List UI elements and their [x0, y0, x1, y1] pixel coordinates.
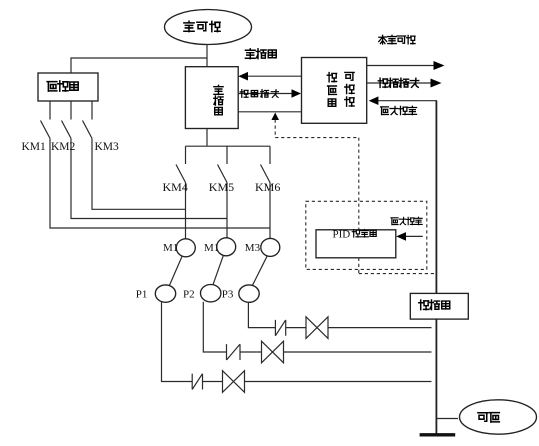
wire: main power down to inverter [206, 45, 208, 67]
wire+arrow 故障信号 output [367, 82, 431, 84]
dashed wire: feedback up segment [274, 120, 276, 138]
wire M3-P3 [253, 256, 268, 285]
pump P2 [201, 285, 221, 302]
motor M3 [261, 238, 280, 256]
arrowhead right into PLC [292, 89, 302, 98]
wire: PLC to inverter with arrow [246, 75, 302, 77]
wire [203, 381, 223, 383]
motor M2 (labelled M1 in source) [217, 238, 236, 256]
svg-text:KM2: KM2 [51, 141, 76, 153]
wire: P1 down and right [162, 302, 193, 382]
label 调节器 [352, 229, 376, 237]
svg-text:M1: M1 [204, 242, 219, 254]
wire M2-P2 [213, 256, 223, 285]
svg-text:KM6: KM6 [255, 180, 280, 194]
wire to manifold [328, 327, 432, 329]
label 故障信号 [378, 78, 418, 87]
label 水泵电机 [379, 35, 415, 44]
svg-text:PID: PID [333, 228, 351, 240]
wire [240, 351, 262, 353]
wire: P3 down and right [248, 302, 275, 327]
label 压力设定 (PID input) [391, 217, 422, 224]
flex joint row3 [192, 374, 202, 390]
wire [286, 327, 306, 329]
contactor KM3 [83, 121, 93, 139]
wire: P2 down and right [203, 302, 226, 352]
contactor KM6 [269, 146, 271, 164]
svg-text:P3: P3 [222, 289, 234, 301]
PLC box 可编程控制器 [302, 58, 367, 124]
svg-text:KM4: KM4 [163, 180, 188, 194]
contactor KM1 [41, 121, 51, 139]
label 变频器 (vertical, in box) [214, 85, 223, 115]
ellipse user 用户 [460, 400, 537, 434]
wire 压力设定 into PID with arrow [405, 235, 423, 237]
starter box 启动器 [38, 73, 98, 101]
arrowhead left into inverter [238, 72, 248, 81]
pump P3 [239, 285, 259, 302]
pipe vertical [435, 101, 437, 434]
label 主电源 [184, 21, 220, 31]
valve row2 [262, 341, 284, 363]
contactor KM5 [226, 146, 228, 164]
wire: KM bus [186, 145, 271, 147]
svg-text:P2: P2 [183, 289, 195, 301]
wire 压力设定 input with left arrow [378, 101, 437, 294]
svg-text:M3: M3 [245, 242, 261, 254]
contactor KM2 [62, 121, 72, 139]
wire to manifold [245, 381, 432, 383]
label 用户 [478, 413, 499, 422]
svg-text:KM1: KM1 [22, 141, 47, 153]
wire+arrow 水泵电机 output [367, 65, 434, 67]
svg-text:KM3: KM3 [95, 141, 120, 153]
label 可编程控制器 [327, 72, 354, 106]
dashed wire: sensor line to PID [359, 273, 434, 275]
ellipse main power 主电源 [165, 10, 252, 45]
arrowhead up onto link (from PID dashed feedback) [271, 113, 279, 121]
label 变频器 (top) [245, 49, 276, 59]
wire to user [437, 418, 458, 420]
inverter box 变频器 [185, 67, 238, 129]
PID regulator box [316, 230, 396, 258]
valve row3 [223, 371, 245, 393]
dashed wire: feedback horizontal [275, 137, 359, 139]
pump P1 [155, 285, 175, 302]
wire M1-P1 [170, 257, 183, 286]
flex joint row1 [275, 320, 285, 336]
flex joint row2 [227, 344, 241, 360]
dashed wire: down to PID box top [358, 138, 360, 230]
dashed wire: PID bottom down [358, 258, 360, 274]
dashed enclosure [306, 201, 427, 269]
pipe end bar [420, 433, 456, 436]
wire: third link inverter-PLC [238, 111, 301, 113]
svg-text:KM5: KM5 [209, 180, 234, 194]
label 压力设定 (upper) [381, 106, 417, 114]
svg-text:M1: M1 [163, 242, 178, 254]
wire to manifold [284, 351, 432, 353]
motor M1 [176, 239, 195, 257]
contactor KM4 [185, 146, 187, 164]
label 报警信号 [240, 90, 278, 98]
valve row1 [306, 317, 328, 339]
wire: starter outputs [49, 101, 51, 120]
wire: alarm signal 报警信号 inverter to PLC [238, 93, 293, 95]
svg-text:P1: P1 [136, 289, 148, 301]
label 启动器 [47, 81, 78, 91]
label 传感器 [419, 300, 450, 310]
sensor box 传感器 [410, 293, 468, 319]
wire: branch to starter [71, 58, 207, 73]
wire: inverter down to bus [206, 129, 208, 147]
